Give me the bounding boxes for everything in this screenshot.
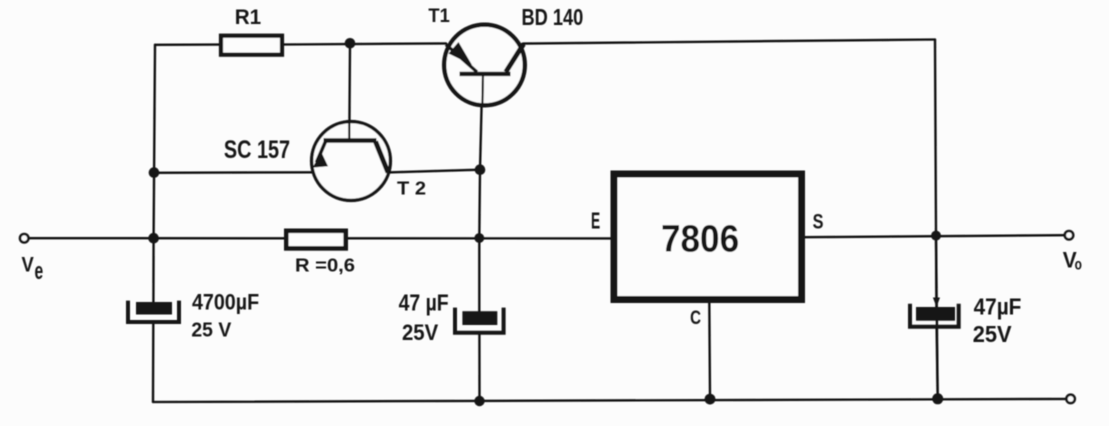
svg-text:BD 140: BD 140 bbox=[522, 5, 584, 31]
terminal bottom-right ground bbox=[1066, 395, 1074, 403]
wire T2 collector to node A bbox=[388, 170, 481, 173]
svg-text:e: e bbox=[35, 259, 44, 285]
transistor T1 (BD140, PNP) bbox=[444, 25, 525, 106]
wire right rail to C3 bbox=[935, 236, 938, 307]
wire R1 to T1 emitter entry bbox=[284, 43, 446, 44]
T1 body circle bbox=[444, 25, 525, 106]
svg-text:C: C bbox=[690, 306, 701, 328]
junction C2 / bottom rail bbox=[474, 396, 484, 406]
transistor T2 (SC157, PNP) bbox=[312, 122, 391, 201]
svg-text:S: S bbox=[813, 209, 824, 233]
resistor R=0,6 bbox=[286, 231, 345, 249]
T1 emitter arrow bbox=[449, 42, 473, 65]
capacitor C3 47uF electrolytic bbox=[910, 298, 959, 327]
svg-text:T 2: T 2 bbox=[397, 178, 426, 199]
T2 base lead from top bbox=[348, 122, 350, 141]
svg-text:47 µF: 47 µF bbox=[399, 289, 449, 316]
wire C1 to bottom rail bbox=[152, 322, 155, 402]
svg-text:T1: T1 bbox=[428, 5, 449, 27]
wire pin S output rail to Vo bbox=[805, 235, 1064, 237]
C2 negative cup bbox=[455, 308, 504, 333]
wire T2 emitter to left rail bbox=[154, 171, 312, 174]
svg-text:25 V: 25 V bbox=[191, 319, 232, 341]
svg-text:o: o bbox=[1075, 256, 1082, 273]
T2 emitter arrow bbox=[312, 152, 328, 167]
T2 collector lead bbox=[376, 142, 389, 173]
junction mid rail / C2 lead bbox=[474, 233, 484, 243]
svg-text:25V: 25V bbox=[402, 321, 438, 345]
svg-text:47µF: 47µF bbox=[974, 294, 1022, 320]
C2 positive plate bbox=[462, 311, 497, 325]
wire left vertical rail bbox=[153, 45, 155, 302]
junction left rail / T2 emitter bbox=[149, 167, 160, 178]
IC U1 7806 regulator box bbox=[614, 174, 802, 300]
wire T1 collector to top-right corner bbox=[523, 40, 935, 44]
T2 base bar bbox=[324, 138, 377, 142]
wire C2 to bottom rail bbox=[478, 334, 480, 402]
T2 body circle bbox=[312, 122, 391, 201]
wire top-left horizontal to R1 bbox=[155, 43, 219, 46]
junction right rail / bottom rail bbox=[932, 393, 943, 404]
wire R1 junction down to T2 base bbox=[348, 43, 351, 141]
wire bottom ground rail bbox=[153, 399, 1066, 402]
junction S rail / right rail bbox=[931, 231, 941, 241]
capacitor C1 4700uF electrolytic bbox=[128, 301, 179, 322]
svg-text:SC 157: SC 157 bbox=[224, 134, 290, 163]
T2 emitter lead bbox=[317, 142, 326, 163]
wire pin C lead down bbox=[708, 303, 711, 399]
junction C lead / bottom rail bbox=[705, 394, 716, 405]
wire C3 to bottom rail bbox=[937, 327, 938, 399]
svg-text:V: V bbox=[22, 253, 35, 277]
svg-text:E: E bbox=[591, 209, 600, 235]
C1 negative cup bbox=[128, 301, 179, 322]
junction R1 / T2 base bbox=[345, 38, 356, 49]
wire T1 base lead down through node A to C2 bbox=[479, 76, 482, 311]
T1 base bar bbox=[460, 72, 511, 76]
T1 emitter lead bbox=[446, 45, 477, 73]
capacitor C2 47uF electrolytic bbox=[455, 308, 504, 333]
C3 negative cup bbox=[910, 304, 959, 327]
terminal Vo output bbox=[1065, 231, 1073, 239]
terminal Ve input bbox=[20, 234, 28, 242]
svg-text:R1: R1 bbox=[235, 6, 262, 29]
svg-text:7806: 7806 bbox=[661, 217, 739, 260]
svg-text:25V: 25V bbox=[973, 320, 1012, 347]
C3 positive plate bbox=[916, 307, 955, 321]
wire right vertical rail bbox=[935, 40, 938, 399]
junction left rail / mid rail bbox=[148, 233, 159, 244]
T1 base-bar center lead down bbox=[481, 74, 484, 105]
C1 positive plate bbox=[136, 302, 172, 315]
svg-text:4700µF: 4700µF bbox=[192, 290, 259, 314]
C3 polarity arrow on lead bbox=[933, 298, 940, 308]
T1 collector lead bbox=[506, 44, 524, 72]
svg-text:R =0,6: R =0,6 bbox=[295, 256, 355, 276]
junction node A T1 base / T2 collector bbox=[475, 164, 486, 175]
resistor R1 bbox=[221, 36, 282, 55]
wire input mid rail Ve to pin E bbox=[30, 237, 611, 240]
